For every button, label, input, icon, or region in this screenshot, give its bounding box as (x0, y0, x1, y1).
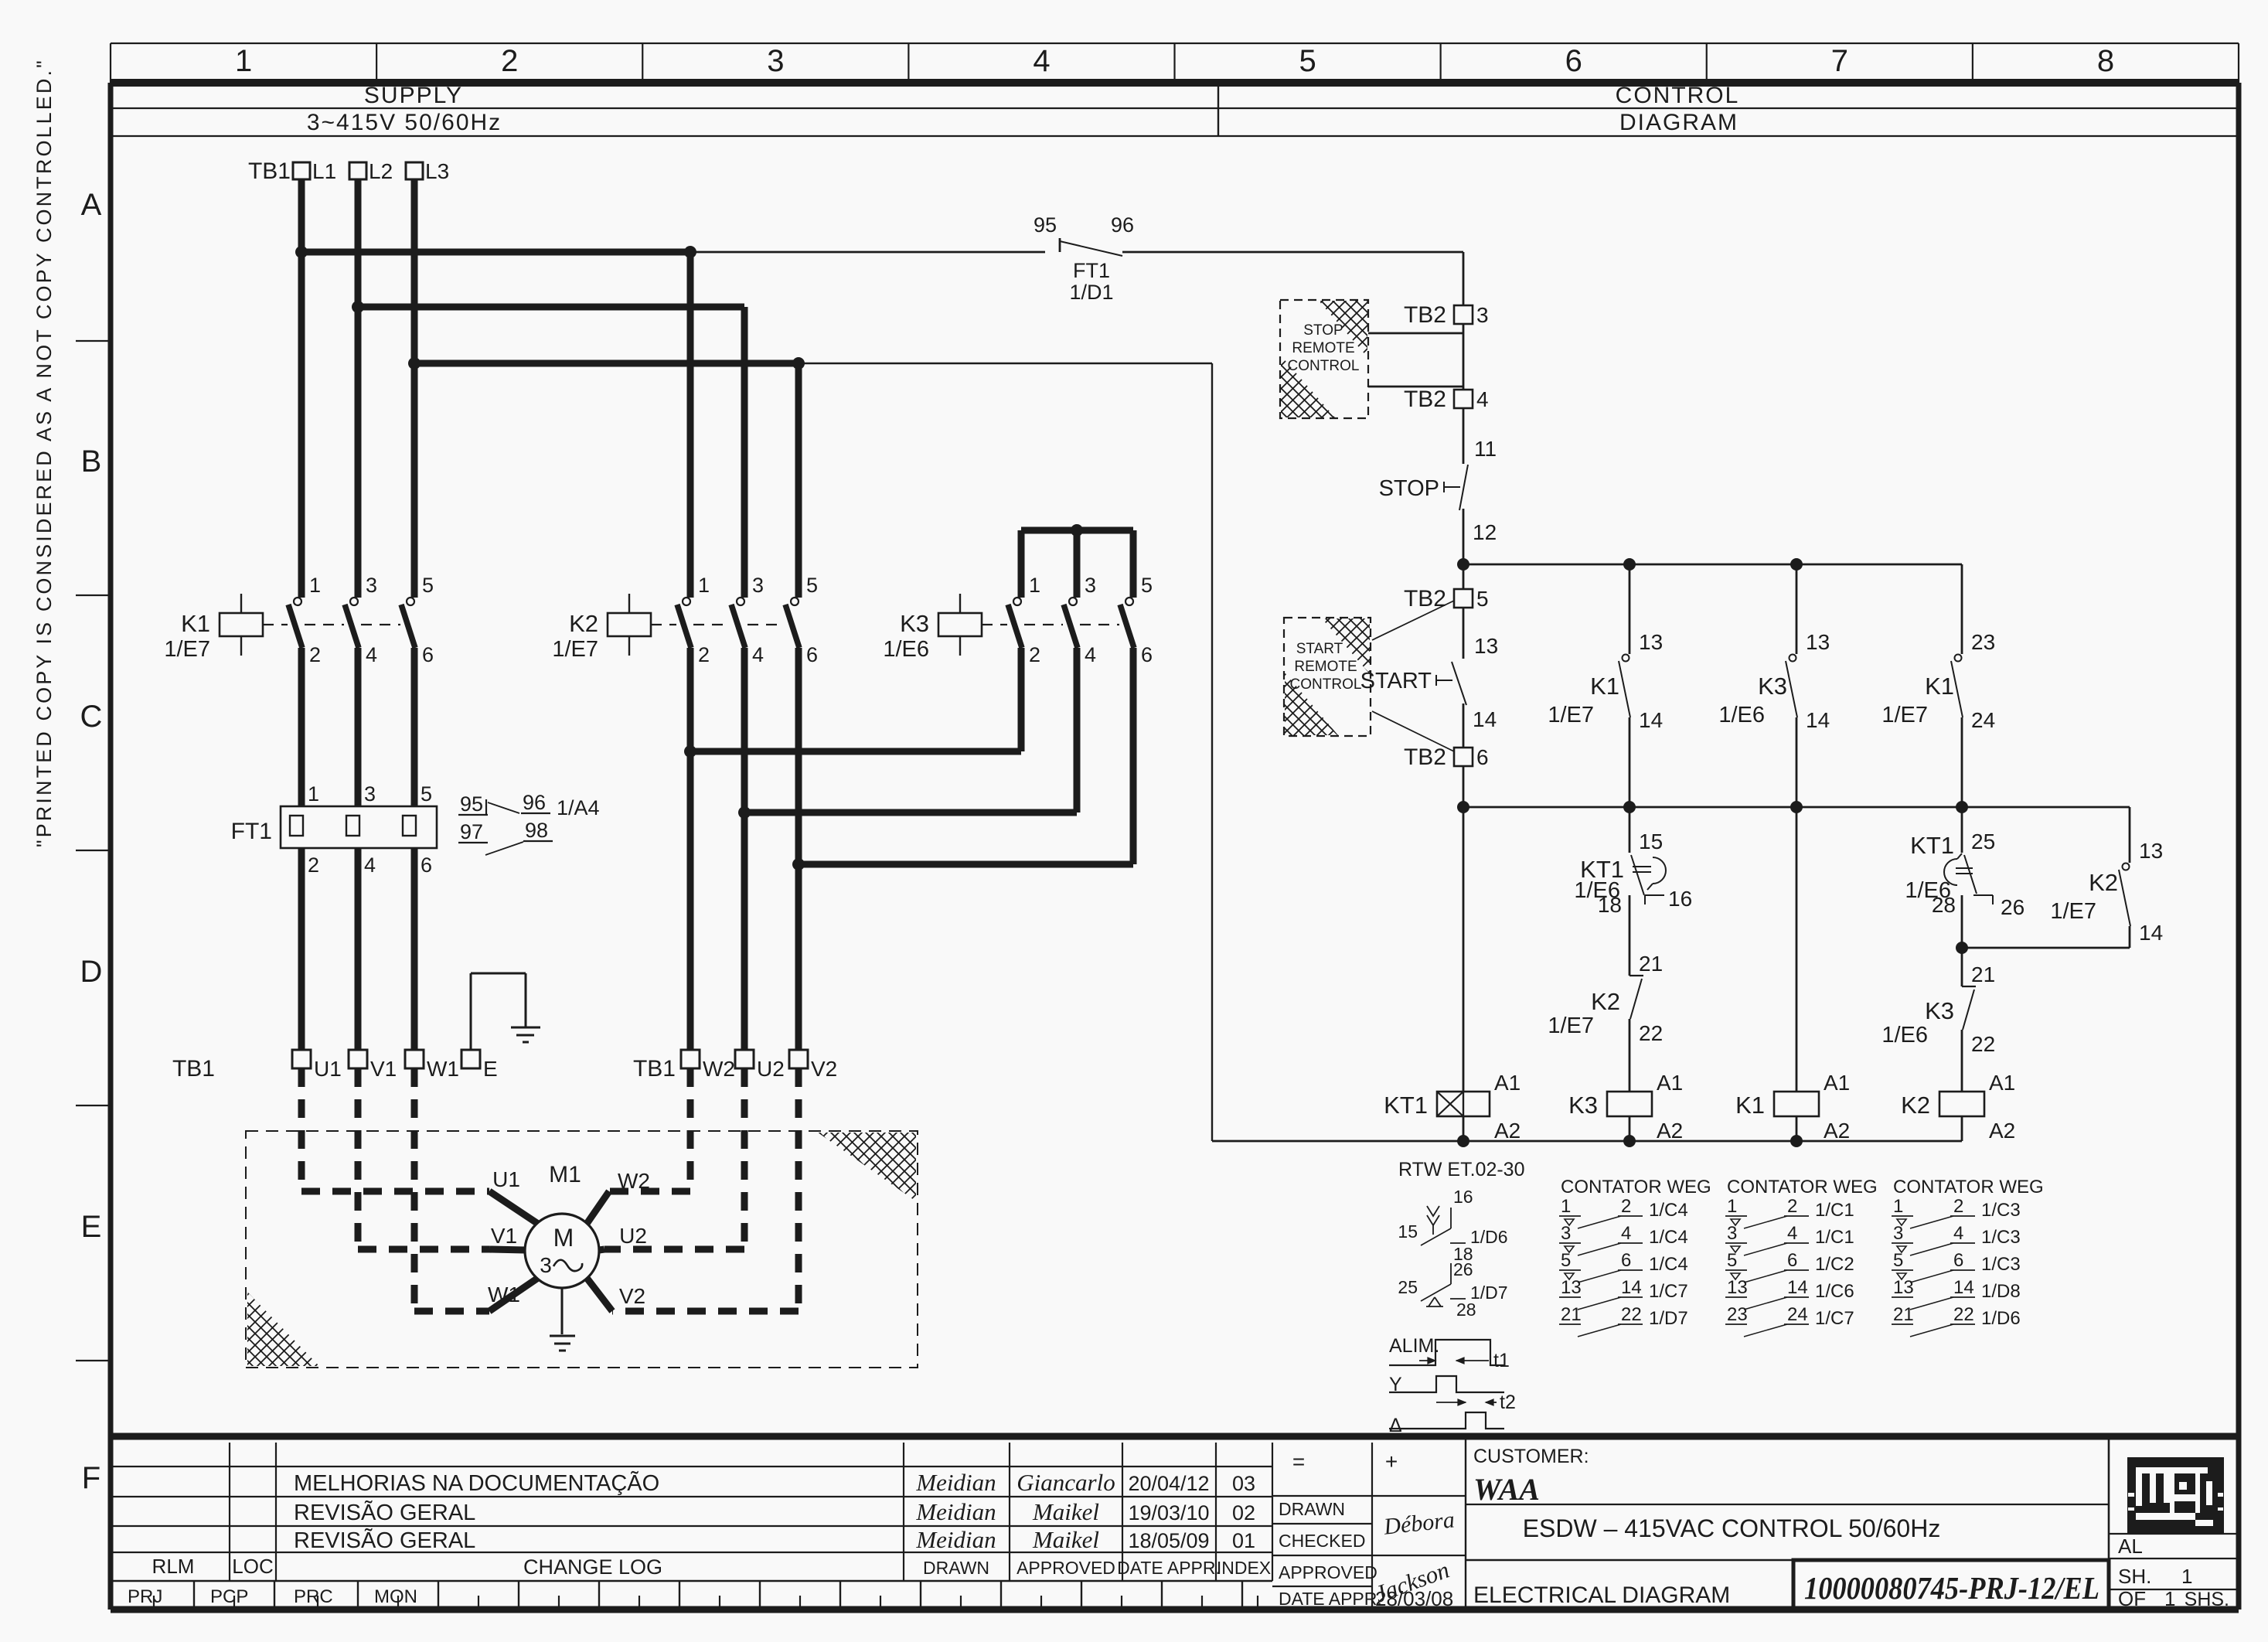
svg-text:1/C1: 1/C1 (1815, 1200, 1854, 1221)
svg-text:APPROVED: APPROVED (1279, 1562, 1377, 1582)
svg-text:INDEX: INDEX (1217, 1558, 1271, 1578)
svg-text:4: 4 (1621, 1223, 1631, 1244)
svg-text:V1: V1 (491, 1224, 517, 1248)
svg-text:3: 3 (1561, 1223, 1571, 1244)
svg-text:13: 13 (1806, 630, 1830, 654)
svg-text:3: 3 (540, 1253, 552, 1277)
svg-text:28: 28 (1932, 893, 1956, 917)
svg-text:03: 03 (1232, 1472, 1255, 1495)
svg-text:14: 14 (1787, 1277, 1808, 1298)
svg-text:22: 22 (1953, 1304, 1974, 1325)
svg-text:1: 1 (308, 782, 319, 806)
svg-text:1: 1 (1727, 1196, 1737, 1217)
svg-text:1: 1 (235, 44, 252, 78)
svg-text:LOC: LOC (232, 1555, 273, 1578)
svg-text:4: 4 (1085, 643, 1096, 666)
svg-text:12: 12 (1473, 520, 1497, 544)
svg-text:TB1: TB1 (172, 1056, 215, 1082)
svg-text:MON: MON (374, 1586, 417, 1607)
svg-text:13: 13 (1561, 1277, 1582, 1298)
svg-text:CONTATOR WEG: CONTATOR WEG (1727, 1177, 1878, 1197)
svg-text:CONTATOR WEG: CONTATOR WEG (1561, 1177, 1711, 1197)
svg-text:A2: A2 (1494, 1119, 1521, 1143)
svg-text:6: 6 (806, 643, 818, 666)
svg-text:6: 6 (1476, 745, 1489, 769)
svg-text:2: 2 (308, 853, 319, 877)
svg-text:REMOTE: REMOTE (1294, 659, 1357, 675)
svg-text:PRJ: PRJ (128, 1586, 162, 1607)
svg-text:5: 5 (421, 782, 432, 806)
svg-text:CHANGE LOG: CHANGE LOG (523, 1555, 662, 1579)
svg-text:A1: A1 (1494, 1071, 1521, 1095)
svg-text:Meidian: Meidian (915, 1526, 996, 1553)
svg-text:L2: L2 (369, 159, 393, 183)
svg-text:K3: K3 (1758, 673, 1787, 700)
svg-text:L3: L3 (425, 159, 449, 183)
svg-text:98: 98 (525, 819, 548, 842)
svg-text:TB2: TB2 (1404, 387, 1446, 412)
svg-text:1/D8: 1/D8 (1981, 1281, 2021, 1302)
svg-text:1/C4: 1/C4 (1649, 1254, 1688, 1275)
svg-text:26: 26 (1453, 1259, 1473, 1279)
svg-text:FT1: FT1 (1073, 259, 1110, 282)
svg-text:5: 5 (422, 574, 434, 597)
svg-text:3: 3 (1893, 1223, 1903, 1244)
svg-text:22: 22 (1639, 1021, 1663, 1045)
svg-text:18/05/09: 18/05/09 (1128, 1529, 1209, 1552)
svg-text:M1: M1 (549, 1162, 581, 1187)
svg-text:1/E6: 1/E6 (1881, 1023, 1928, 1048)
svg-text:1/D6: 1/D6 (1470, 1227, 1508, 1247)
svg-text:K3: K3 (900, 610, 929, 637)
svg-text:Δ: Δ (1389, 1415, 1402, 1436)
svg-text:TB1: TB1 (248, 158, 291, 184)
svg-text:W2: W2 (618, 1169, 650, 1193)
svg-text:24: 24 (1787, 1304, 1808, 1325)
svg-text:K2: K2 (1901, 1092, 1930, 1119)
svg-text:1/C4: 1/C4 (1649, 1227, 1688, 1248)
svg-text:19/03/10: 19/03/10 (1128, 1501, 1209, 1524)
svg-text:STOP: STOP (1379, 476, 1439, 501)
svg-text:TB1: TB1 (633, 1056, 676, 1082)
svg-text:D: D (80, 955, 103, 989)
svg-text:1/E7: 1/E7 (552, 637, 598, 662)
svg-text:5: 5 (1476, 587, 1489, 611)
svg-text:A1: A1 (1657, 1071, 1683, 1095)
svg-text:21: 21 (1639, 952, 1663, 976)
svg-text:2: 2 (1029, 643, 1040, 666)
svg-text:3: 3 (752, 574, 764, 597)
svg-text:K3: K3 (1568, 1092, 1598, 1119)
svg-text:95: 95 (460, 792, 483, 816)
svg-text:1: 1 (1029, 574, 1040, 597)
svg-text:AL: AL (2118, 1535, 2143, 1558)
svg-text:6: 6 (1953, 1250, 1963, 1271)
svg-text:6: 6 (1565, 44, 1582, 78)
svg-text:1: 1 (1893, 1196, 1903, 1217)
svg-text:W1: W1 (488, 1283, 520, 1306)
svg-text:RTW ET.02-30: RTW ET.02-30 (1398, 1159, 1524, 1180)
svg-text:14: 14 (1639, 708, 1663, 732)
svg-text:A: A (81, 188, 102, 222)
svg-text:1/C7: 1/C7 (1649, 1281, 1688, 1302)
svg-text:14: 14 (1621, 1277, 1642, 1298)
svg-text:6: 6 (1787, 1250, 1797, 1271)
svg-text:MELHORIAS NA DOCUMENTAÇÃO: MELHORIAS NA DOCUMENTAÇÃO (294, 1470, 659, 1496)
svg-text:21: 21 (1971, 962, 1995, 986)
svg-text:V1: V1 (370, 1057, 397, 1081)
svg-text:1/D6: 1/D6 (1981, 1308, 2021, 1329)
svg-text:1/E7: 1/E7 (1881, 703, 1928, 727)
svg-text:5: 5 (806, 574, 818, 597)
svg-text:A1: A1 (1824, 1071, 1850, 1095)
svg-text:SH.: SH. (2118, 1565, 2151, 1588)
svg-text:U1: U1 (492, 1167, 520, 1191)
svg-text:ALIM.: ALIM. (1389, 1335, 1439, 1357)
svg-text:W2: W2 (703, 1057, 735, 1081)
svg-text:APPROVED: APPROVED (1017, 1558, 1115, 1578)
svg-text:DATE APPR.: DATE APPR. (1279, 1589, 1382, 1609)
svg-text:SHS.: SHS. (2185, 1589, 2229, 1610)
svg-text:M: M (553, 1224, 574, 1252)
svg-text:01: 01 (1232, 1529, 1255, 1552)
svg-text:26: 26 (2001, 895, 2025, 919)
svg-text:Meidian: Meidian (915, 1498, 996, 1525)
svg-text:1/C4: 1/C4 (1649, 1200, 1688, 1221)
svg-text:TB2: TB2 (1404, 302, 1446, 328)
svg-text:U1: U1 (314, 1057, 342, 1081)
svg-text:8: 8 (2097, 44, 2114, 78)
svg-text:U2: U2 (757, 1057, 785, 1081)
svg-text:1: 1 (2181, 1565, 2192, 1588)
svg-text:1/D7: 1/D7 (1649, 1308, 1688, 1329)
svg-text:15: 15 (1639, 830, 1663, 853)
svg-text:1/D7: 1/D7 (1470, 1283, 1508, 1303)
svg-text:1/E7: 1/E7 (1548, 703, 1594, 727)
svg-text:DIAGRAM: DIAGRAM (1619, 110, 1738, 135)
svg-text:5: 5 (1299, 44, 1316, 78)
svg-text:10000080745-PRJ-12/EL: 10000080745-PRJ-12/EL (1804, 1570, 2099, 1606)
svg-text:K1: K1 (181, 610, 210, 637)
svg-text:Maikel: Maikel (1032, 1526, 1099, 1553)
svg-text:CONTATOR WEG: CONTATOR WEG (1893, 1177, 2044, 1197)
svg-text:K1: K1 (1590, 673, 1619, 700)
svg-text:14: 14 (2139, 921, 2163, 945)
svg-text:K1: K1 (1925, 673, 1954, 700)
svg-text:4: 4 (364, 853, 376, 877)
svg-text:PRC: PRC (294, 1586, 333, 1607)
svg-text:14: 14 (1953, 1277, 1974, 1298)
svg-text:96: 96 (1111, 213, 1134, 237)
svg-text:02: 02 (1232, 1501, 1255, 1524)
svg-text:START: START (1296, 641, 1343, 657)
svg-text:95: 95 (1034, 213, 1057, 237)
svg-text:2: 2 (1953, 1196, 1963, 1217)
svg-text:REVISÃO GERAL: REVISÃO GERAL (294, 1527, 475, 1553)
svg-text:1: 1 (309, 574, 321, 597)
svg-text:1: 1 (1561, 1196, 1571, 1217)
svg-text:13: 13 (1639, 630, 1663, 654)
svg-text:E: E (483, 1057, 498, 1081)
svg-text:13: 13 (1893, 1277, 1914, 1298)
svg-text:1/E6: 1/E6 (883, 637, 929, 662)
svg-text:A2: A2 (1657, 1119, 1683, 1143)
svg-text:1/D1: 1/D1 (1069, 281, 1113, 304)
svg-text:5: 5 (1141, 574, 1153, 597)
svg-text:2: 2 (1621, 1196, 1631, 1217)
svg-text:18: 18 (1598, 893, 1622, 917)
svg-text:K2: K2 (2089, 869, 2118, 896)
svg-text:Maikel: Maikel (1032, 1498, 1099, 1525)
svg-text:FT1: FT1 (231, 819, 272, 844)
svg-text:23: 23 (1727, 1304, 1748, 1325)
svg-text:CONTROL: CONTROL (1616, 83, 1740, 108)
svg-text:28/03/08: 28/03/08 (1375, 1587, 1453, 1610)
svg-text:B: B (81, 445, 102, 479)
svg-text:3~415V 50/60Hz: 3~415V 50/60Hz (307, 110, 502, 135)
svg-text:1/E7: 1/E7 (164, 637, 210, 662)
svg-text:20/04/12: 20/04/12 (1128, 1472, 1209, 1495)
svg-text:KT1: KT1 (1384, 1092, 1428, 1119)
svg-text:24: 24 (1971, 708, 1995, 732)
svg-text:3: 3 (1476, 303, 1489, 327)
svg-text:1/C6: 1/C6 (1815, 1281, 1854, 1302)
svg-text:1/C1: 1/C1 (1815, 1227, 1854, 1248)
svg-text:E: E (81, 1210, 102, 1244)
svg-text:1/C3: 1/C3 (1981, 1200, 2021, 1221)
svg-text:13: 13 (2139, 839, 2163, 863)
svg-text:A1: A1 (1989, 1071, 2015, 1095)
svg-text:1/C3: 1/C3 (1981, 1227, 2021, 1248)
svg-text:6: 6 (422, 643, 434, 666)
svg-text:REVISÃO GERAL: REVISÃO GERAL (294, 1499, 475, 1525)
svg-text:7: 7 (1831, 44, 1848, 78)
svg-text:1/E7: 1/E7 (2050, 899, 2096, 924)
svg-text:5: 5 (1561, 1250, 1571, 1271)
svg-text:DRAWN: DRAWN (1279, 1499, 1345, 1519)
svg-text:5: 5 (1727, 1250, 1737, 1271)
svg-text:23: 23 (1971, 630, 1995, 654)
svg-text:1/C3: 1/C3 (1981, 1254, 2021, 1275)
svg-text:5: 5 (1893, 1250, 1903, 1271)
svg-text:14: 14 (1806, 708, 1830, 732)
svg-text:Giancarlo: Giancarlo (1017, 1469, 1115, 1496)
svg-text:2: 2 (309, 643, 321, 666)
svg-text:1: 1 (2164, 1587, 2175, 1610)
svg-text:DRAWN: DRAWN (923, 1558, 989, 1578)
svg-text:K2: K2 (1591, 988, 1620, 1015)
svg-text:1/E6: 1/E6 (1718, 703, 1765, 727)
svg-text:L1: L1 (312, 159, 336, 183)
svg-text:PCP: PCP (210, 1586, 248, 1607)
svg-text:K2: K2 (569, 610, 598, 637)
svg-text:96: 96 (523, 791, 546, 814)
svg-text:4: 4 (1033, 44, 1050, 78)
svg-text:25: 25 (1398, 1277, 1418, 1297)
svg-text:K3: K3 (1925, 997, 1954, 1024)
svg-text:25: 25 (1971, 830, 1995, 853)
svg-text:t1: t1 (1493, 1350, 1510, 1371)
svg-text:=: = (1292, 1450, 1305, 1473)
svg-text:3: 3 (366, 574, 377, 597)
svg-text:ELECTRICAL DIAGRAM: ELECTRICAL DIAGRAM (1473, 1582, 1730, 1608)
svg-text:6: 6 (421, 853, 432, 877)
svg-text:4: 4 (1787, 1223, 1797, 1244)
svg-text:97: 97 (460, 820, 483, 843)
svg-text:3: 3 (767, 44, 784, 78)
svg-text:1/E7: 1/E7 (1548, 1013, 1594, 1038)
svg-text:1/A4: 1/A4 (557, 796, 600, 819)
svg-text:"PRINTED COPY IS CONSIDERED: "PRINTED COPY IS CONSIDERED AS A NOT COP… (32, 58, 56, 847)
svg-text:SUPPLY: SUPPLY (364, 83, 463, 108)
svg-text:STOP: STOP (1303, 322, 1343, 339)
svg-text:3: 3 (1085, 574, 1096, 597)
svg-text:1/C2: 1/C2 (1815, 1254, 1854, 1275)
svg-text:13: 13 (1727, 1277, 1748, 1298)
svg-text:22: 22 (1971, 1032, 1995, 1056)
svg-text:REMOTE: REMOTE (1292, 340, 1354, 356)
svg-text:3: 3 (364, 782, 376, 806)
svg-text:16: 16 (1668, 887, 1692, 911)
svg-text:t2: t2 (1500, 1392, 1516, 1413)
svg-text:2: 2 (698, 643, 710, 666)
svg-text:4: 4 (1476, 387, 1489, 411)
svg-text:4: 4 (1953, 1223, 1963, 1244)
svg-text:16: 16 (1453, 1187, 1473, 1207)
svg-text:4: 4 (752, 643, 764, 666)
svg-text:CONTROL: CONTROL (1288, 358, 1360, 374)
svg-text:WAA: WAA (1473, 1472, 1540, 1507)
svg-text:W1: W1 (427, 1057, 459, 1081)
svg-text:+: + (1385, 1450, 1398, 1473)
svg-text:RLM: RLM (152, 1555, 195, 1578)
svg-text:15: 15 (1398, 1221, 1418, 1242)
svg-text:A2: A2 (1989, 1119, 2015, 1143)
svg-text:4: 4 (366, 643, 377, 666)
svg-text:2: 2 (501, 44, 518, 78)
svg-text:21: 21 (1893, 1304, 1914, 1325)
svg-text:V2: V2 (619, 1284, 645, 1308)
svg-text:2: 2 (1787, 1196, 1797, 1217)
svg-text:V2: V2 (811, 1057, 837, 1081)
svg-text:14: 14 (1473, 707, 1497, 731)
svg-text:CUSTOMER:: CUSTOMER: (1473, 1446, 1589, 1467)
svg-text:KT1: KT1 (1910, 832, 1954, 859)
svg-text:U2: U2 (619, 1224, 647, 1248)
svg-text:CHECKED: CHECKED (1279, 1531, 1365, 1551)
svg-text:3: 3 (1727, 1223, 1737, 1244)
svg-text:K1: K1 (1735, 1092, 1765, 1119)
svg-text:6: 6 (1141, 643, 1153, 666)
svg-text:22: 22 (1621, 1304, 1642, 1325)
svg-text:Meidian: Meidian (915, 1469, 996, 1496)
svg-text:CONTROL: CONTROL (1290, 676, 1362, 693)
svg-text:A2: A2 (1824, 1119, 1850, 1143)
svg-text:21: 21 (1561, 1304, 1582, 1325)
svg-text:DATE APPR.: DATE APPR. (1117, 1558, 1221, 1578)
svg-text:C: C (80, 700, 103, 734)
svg-text:1/C7: 1/C7 (1815, 1308, 1854, 1329)
svg-text:11: 11 (1474, 437, 1497, 461)
svg-text:6: 6 (1621, 1250, 1631, 1271)
svg-text:ESDW – 415VAC CONTROL 50/6: ESDW – 415VAC CONTROL 50/60Hz (1523, 1514, 1941, 1542)
svg-text:13: 13 (1474, 634, 1498, 658)
svg-text:1: 1 (698, 574, 710, 597)
svg-text:OF: OF (2118, 1587, 2146, 1610)
svg-text:F: F (82, 1461, 100, 1495)
svg-text:TB2: TB2 (1404, 744, 1446, 770)
